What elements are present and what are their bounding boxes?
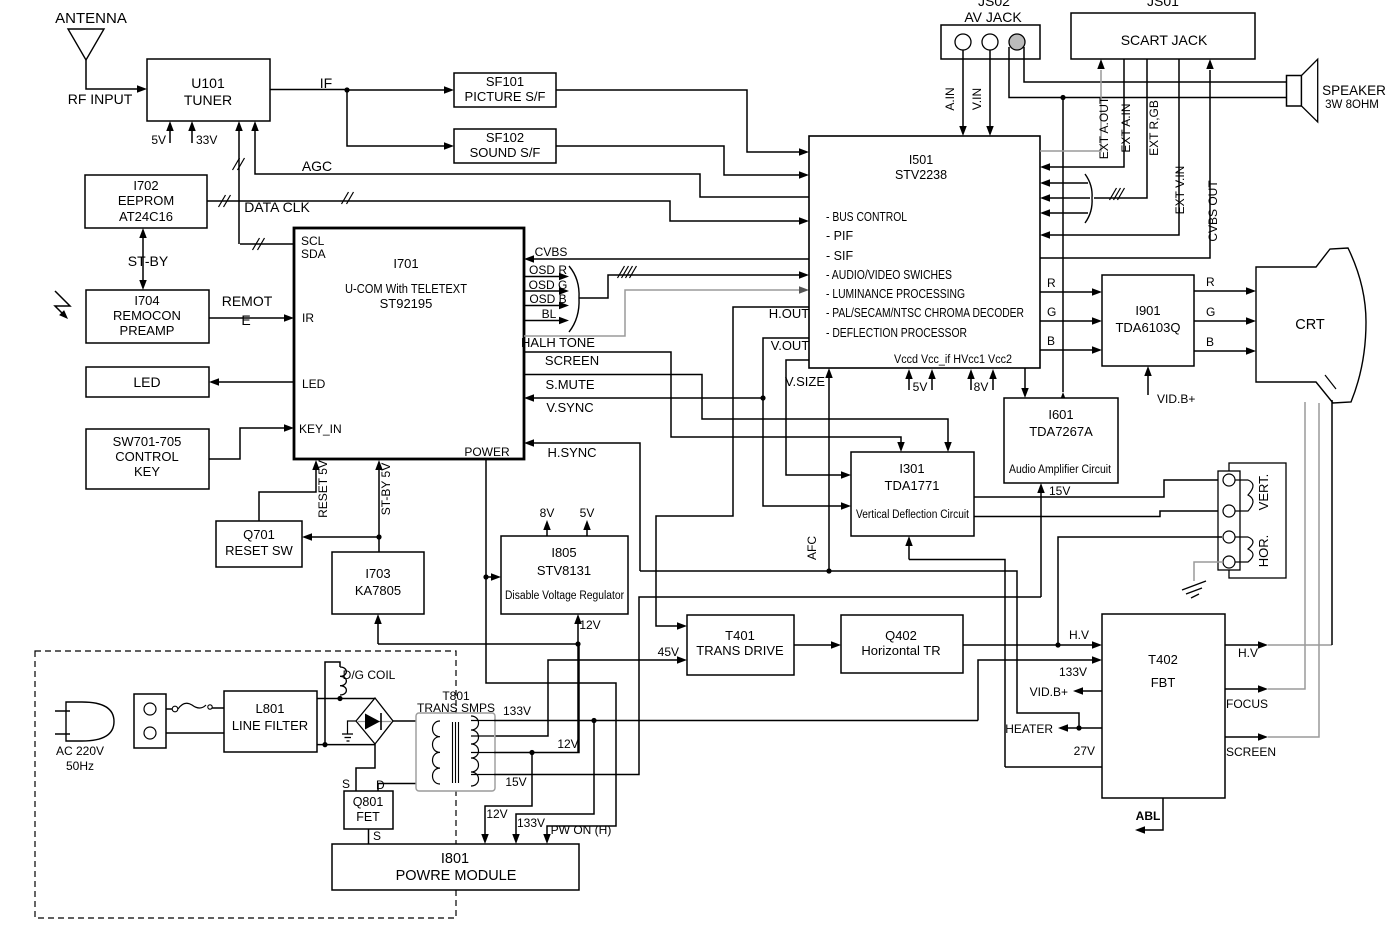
svg-text:EXT A.OUT: EXT A.OUT <box>1097 96 1111 159</box>
svg-text:OSD B: OSD B <box>529 292 566 306</box>
wire V.SIZE to I301 <box>786 360 851 479</box>
regulator I805 <box>501 536 628 614</box>
svg-text:I301: I301 <box>899 461 924 476</box>
wire 12V rail to I703 <box>374 614 578 644</box>
wire 12V riser from T801 <box>577 644 579 753</box>
svg-text:Q701: Q701 <box>243 527 275 542</box>
power module I801 <box>332 844 579 890</box>
svg-text:- PAL/SECAM/NTSC CHROMA DECODE: - PAL/SECAM/NTSC CHROMA DECODER <box>826 306 1024 320</box>
svg-text:POWER: POWER <box>464 445 510 459</box>
svg-text:T402: T402 <box>1148 652 1178 667</box>
svg-text:VID.B+: VID.B+ <box>1157 392 1195 406</box>
svg-text:STV8131: STV8131 <box>537 563 591 578</box>
label SPEAKER <box>1322 83 1386 98</box>
wire ABL <box>1135 798 1163 834</box>
wire POWER into I805 <box>486 573 501 581</box>
label D/G COIL <box>343 668 396 682</box>
wire AFC line <box>640 571 1079 728</box>
svg-text:EXT A.IN: EXT A.IN <box>1119 103 1133 152</box>
svg-text:FOCUS: FOCUS <box>1226 697 1268 711</box>
svg-text:TDA6103Q: TDA6103Q <box>1115 320 1180 335</box>
eeprom I702 <box>85 175 207 228</box>
svg-text:AGC: AGC <box>302 158 332 174</box>
wire CVBS I501 to I701 <box>524 245 809 263</box>
line filter L801 <box>224 691 317 752</box>
wire OSD G <box>524 278 569 295</box>
T801 core <box>453 722 459 783</box>
crt <box>1256 248 1366 403</box>
fet Q801 <box>344 791 393 829</box>
svg-text:T401: T401 <box>725 628 755 643</box>
svg-text:Vertical Deflection Circuit: Vertical Deflection Circuit <box>856 509 970 521</box>
svg-text:SDA: SDA <box>301 247 326 261</box>
svg-text:H.SYNC: H.SYNC <box>547 445 596 460</box>
svg-text:POWRE MODULE: POWRE MODULE <box>396 868 517 884</box>
wire audio from I601 <box>1059 98 1067 403</box>
svg-text:Vccd Vcc_if HVcc1 Vcc2: Vccd Vcc_if HVcc1 Vcc2 <box>894 354 1012 366</box>
svg-text:- DEFLECTION PROCESSOR: - DEFLECTION PROCESSOR <box>826 326 967 340</box>
svg-text:U-COM With TELETEXT: U-COM With TELETEXT <box>345 281 467 296</box>
svg-text:AC 220V: AC 220V <box>56 744 104 758</box>
wire S.MUTE to I301 <box>524 375 952 453</box>
junction 12V rail <box>575 641 580 646</box>
svg-text:PW ON (H): PW ON (H) <box>551 823 612 837</box>
svg-text:CONTROL: CONTROL <box>115 449 179 464</box>
power supply dashed boundary <box>35 651 456 918</box>
svg-text:- BUS CONTROL: - BUS CONTROL <box>826 210 907 224</box>
wire RESET 5V <box>259 460 330 521</box>
label JS02 <box>978 0 1010 9</box>
svg-text:V.IN: V.IN <box>970 88 984 110</box>
svg-text:R: R <box>1047 276 1056 290</box>
degauss coil D/G <box>325 662 346 745</box>
wire KEY_IN <box>209 424 294 459</box>
svg-text:G: G <box>1206 305 1215 319</box>
label V.SYNC <box>546 400 593 415</box>
wire Q402 to FBT <box>963 628 1102 649</box>
label S.MUTE <box>545 377 594 392</box>
svg-text:SCREEN: SCREEN <box>1226 745 1276 759</box>
wire 12V tap <box>494 644 579 753</box>
svg-text:CRT: CRT <box>1295 317 1325 333</box>
svg-text:JS01: JS01 <box>1147 0 1179 9</box>
svg-text:G: G <box>1047 305 1056 319</box>
33V supply into tuner <box>188 121 217 147</box>
label DATA CLK <box>244 199 310 215</box>
wire EXT R.GB <box>1094 59 1161 200</box>
svg-text:D/G COIL: D/G COIL <box>343 668 396 682</box>
label H.SYNC <box>547 445 596 460</box>
av jack pin 3 <box>1009 34 1025 50</box>
svg-text:133V: 133V <box>1059 665 1087 679</box>
svg-text:RF INPUT: RF INPUT <box>68 91 133 107</box>
svg-text:ABL: ABL <box>1136 809 1161 823</box>
wire B to CRT <box>1194 335 1256 355</box>
svg-text:27V: 27V <box>1074 744 1095 758</box>
yoke pin 4 <box>1223 556 1235 568</box>
wire SCREEN to CRT <box>1225 403 1319 759</box>
trans drive T401 <box>687 615 794 675</box>
wire AGC I501 to tuner <box>251 121 809 197</box>
svg-text:BL: BL <box>542 307 557 321</box>
svg-text:TDA1771: TDA1771 <box>885 478 940 493</box>
svg-text:H.V: H.V <box>1069 628 1089 642</box>
ac plug <box>55 702 114 741</box>
wire L801 top out <box>317 698 375 700</box>
svg-text:B: B <box>1206 335 1214 349</box>
wire connector to L801 bottom <box>166 732 224 734</box>
label H.OUT <box>769 306 810 321</box>
svg-text:SW701-705: SW701-705 <box>113 434 182 449</box>
label 50Hz <box>66 759 94 773</box>
reset switch Q701 <box>216 521 302 567</box>
svg-text:- LUMINANCE PROCESSING: - LUMINANCE PROCESSING <box>826 287 965 301</box>
wire 12V into I805 <box>574 614 600 644</box>
svg-text:ST-BY: ST-BY <box>128 253 169 269</box>
svg-text:AFC: AFC <box>805 536 819 560</box>
wire yoke ground gray <box>1194 562 1223 581</box>
wire VID.B+ out <box>1030 685 1102 699</box>
svg-text:TRANS DRIVE: TRANS DRIVE <box>696 643 784 658</box>
junction heater afc <box>1076 725 1081 730</box>
label PW ON (H) <box>551 823 612 837</box>
wire 15V into I601 <box>1037 483 1070 597</box>
wire BL <box>524 307 569 324</box>
junction 133V <box>591 718 596 723</box>
wire V.OUT to I301 <box>763 338 851 510</box>
fuse <box>166 703 224 712</box>
junction 12V to I801 <box>529 750 534 755</box>
svg-text:Disable Voltage Regulator: Disable Voltage Regulator <box>505 590 624 602</box>
wire EXT B to I501 <box>1040 209 1088 217</box>
8V supply into I501 <box>967 369 997 394</box>
svg-text:PREAMP: PREAMP <box>120 323 175 338</box>
scart jack JS01 <box>1071 13 1255 59</box>
svg-text:SPEAKER: SPEAKER <box>1322 83 1386 98</box>
yoke pin 3 <box>1223 531 1235 543</box>
svg-text:EEPROM: EEPROM <box>118 193 174 208</box>
av jack pin 2 <box>982 34 998 50</box>
label V.OUT <box>771 338 810 353</box>
junction speaker audio <box>1060 95 1065 100</box>
tuner U101 <box>147 59 270 121</box>
wire FOCUS to CRT <box>1225 402 1305 711</box>
svg-text:REMOCON: REMOCON <box>113 308 181 323</box>
wire bridge to FET S <box>342 744 375 791</box>
5V supply into tuner <box>151 121 173 147</box>
svg-text:TRANS SMPS: TRANS SMPS <box>417 701 495 715</box>
smps transformer T801 <box>416 689 495 791</box>
IR beam symbol <box>55 291 70 319</box>
pin SDA <box>301 247 326 261</box>
yoke pin 1 <box>1223 474 1235 486</box>
wire ST-BY I702-I704 <box>128 228 169 290</box>
wire SCREEN to I301 <box>524 352 905 452</box>
svg-text:KEY: KEY <box>134 464 160 479</box>
svg-text:A.IN: A.IN <box>943 87 957 110</box>
svg-text:Horizontal TR: Horizontal TR <box>861 643 940 658</box>
wire OSD bus to I501 <box>579 266 809 298</box>
filter SF101 <box>454 73 556 107</box>
pin SCL <box>301 234 325 248</box>
svg-text:S: S <box>373 829 381 843</box>
svg-text:- SIF: - SIF <box>826 249 853 263</box>
wire EXT A.IN <box>1040 59 1133 171</box>
T801 tap stubs <box>471 721 494 775</box>
wire LED from I701 <box>209 378 294 386</box>
8V output stub <box>540 506 555 536</box>
label ANTENNA <box>55 10 127 27</box>
svg-text:- PIF: - PIF <box>826 229 853 243</box>
svg-text:SF101: SF101 <box>486 74 524 89</box>
bridge rectifier <box>356 698 393 744</box>
svg-text:SF102: SF102 <box>486 130 524 145</box>
svg-text:OSD R: OSD R <box>529 263 567 277</box>
hor coil <box>1235 537 1253 562</box>
svg-text:12V: 12V <box>579 618 600 632</box>
svg-text:JS02: JS02 <box>978 0 1010 9</box>
svg-text:L801: L801 <box>256 701 285 716</box>
svg-text:S: S <box>342 777 350 791</box>
svg-text:AT24C16: AT24C16 <box>119 209 173 224</box>
svg-text:SCREEN: SCREEN <box>545 353 599 368</box>
wire VID.B+ into I901 <box>1144 366 1195 406</box>
yoke connector frame <box>1229 463 1286 578</box>
svg-text:TUNER: TUNER <box>184 92 232 108</box>
svg-text:IF: IF <box>320 75 332 91</box>
svg-text:E: E <box>241 312 250 328</box>
svg-text:ANTENNA: ANTENNA <box>55 10 127 27</box>
svg-text:I501: I501 <box>909 153 933 167</box>
svg-text:V.OUT: V.OUT <box>771 338 810 353</box>
crt anode tick <box>1325 375 1336 389</box>
wire B to I901 <box>1040 334 1102 354</box>
svg-text:OSD G: OSD G <box>529 278 568 292</box>
svg-text:I702: I702 <box>133 178 158 193</box>
wire POWER from I701 <box>486 459 616 844</box>
svg-text:VID.B+: VID.B+ <box>1030 685 1068 699</box>
svg-text:IR: IR <box>302 311 314 325</box>
svg-text:I703: I703 <box>365 566 390 581</box>
svg-text:AV JACK: AV JACK <box>964 9 1022 25</box>
svg-text:H.OUT: H.OUT <box>769 306 810 321</box>
wire REMOTE I704 to I701 <box>209 293 294 328</box>
wire hor drive to yoke <box>1058 537 1222 645</box>
svg-text:3W 8OHM: 3W 8OHM <box>1325 99 1379 111</box>
av jack JS02 <box>941 9 1040 59</box>
label 3W 8OHM <box>1325 99 1379 111</box>
svg-text:8V: 8V <box>974 380 989 394</box>
wire V.IN to I501 <box>970 50 994 136</box>
wire IF branch to SF102 <box>347 90 454 150</box>
svg-text:HEATER: HEATER <box>1005 722 1053 736</box>
svg-text:45V: 45V <box>658 645 679 659</box>
svg-text:5V: 5V <box>913 380 928 394</box>
OSD bus brace <box>569 266 579 332</box>
wire speaker top <box>1024 47 1287 82</box>
svg-text:HALH TONE: HALH TONE <box>521 335 595 350</box>
pin POWER <box>464 445 510 459</box>
flyback T402 <box>1102 614 1225 798</box>
svg-text:EXT R,GB: EXT R,GB <box>1147 100 1161 156</box>
svg-text:KEY_IN: KEY_IN <box>299 422 342 436</box>
wire HALH TONE gray <box>524 286 809 336</box>
wire 15V tap <box>494 597 1041 789</box>
EXT RGB brace <box>1085 174 1092 223</box>
wire 12V to I801 <box>481 753 532 845</box>
wire FET S to I801 <box>369 829 382 844</box>
svg-text:DATA CLK: DATA CLK <box>244 199 310 215</box>
svg-text:8V: 8V <box>540 506 555 520</box>
vertical deflection I301 <box>851 452 974 536</box>
svg-text:RESET SW: RESET SW <box>225 543 293 558</box>
svg-text:I701: I701 <box>393 256 418 271</box>
junction V.OUT V.SYNC <box>760 395 765 400</box>
svg-text:5V: 5V <box>151 133 166 147</box>
wire SF101 to I501 <box>556 90 809 156</box>
filter SF102 <box>454 129 556 163</box>
svg-text:KA7805: KA7805 <box>355 583 401 598</box>
horizontal TR Q402 <box>841 615 963 673</box>
svg-text:I901: I901 <box>1135 303 1160 318</box>
svg-text:LED: LED <box>302 377 326 391</box>
svg-text:ST-BY 5V: ST-BY 5V <box>379 463 393 515</box>
pin IR <box>302 311 314 325</box>
remocon preamp I704 <box>86 290 209 343</box>
wire R to CRT <box>1194 275 1256 295</box>
wire 27V into FBT <box>1005 744 1102 767</box>
regulator I703 <box>332 552 424 614</box>
control keys SW701-705 <box>86 429 209 489</box>
svg-text:FBT: FBT <box>1151 675 1176 690</box>
wire EXT V.IN <box>1040 59 1187 239</box>
antenna symbol <box>68 29 147 93</box>
wire ST-BY 5V <box>375 460 393 552</box>
wire FET D to T801 <box>376 778 440 792</box>
wire OSD B <box>524 292 569 309</box>
wire I501 to I601 <box>1021 368 1029 398</box>
svg-text:REMOT: REMOT <box>222 293 273 309</box>
svg-text:CVBS: CVBS <box>535 245 568 259</box>
svg-text:Audio Amplifier Circuit: Audio Amplifier Circuit <box>1009 464 1112 476</box>
wire L801 bottom out <box>317 744 375 746</box>
svg-text:133V: 133V <box>503 704 531 718</box>
svg-text:S.MUTE: S.MUTE <box>545 377 594 392</box>
speaker <box>1287 59 1318 122</box>
svg-text:- AUDIO/VIDEO SWICHES: - AUDIO/VIDEO SWICHES <box>826 268 952 282</box>
wire 133V to I801 <box>512 721 594 845</box>
svg-text:I601: I601 <box>1048 407 1073 422</box>
junction hor drive <box>1055 642 1060 647</box>
wire H.SYNC from AFC line <box>524 439 640 571</box>
ac connector <box>134 694 166 748</box>
wire ST-BY 5V to Q701 <box>302 533 379 541</box>
wire A.IN to I501 <box>943 50 967 136</box>
svg-text:ST92195: ST92195 <box>380 296 433 311</box>
wire 133V rail <box>494 704 978 721</box>
wire AFC into I501 <box>805 368 833 571</box>
svg-text:12V: 12V <box>486 807 507 821</box>
T801 primary winding <box>433 721 441 784</box>
svg-text:15V: 15V <box>1049 484 1070 498</box>
svg-text:PICTURE S/F: PICTURE S/F <box>465 89 546 104</box>
svg-text:V.SIZE: V.SIZE <box>785 374 825 389</box>
jungle IC I501 <box>809 136 1040 368</box>
wire H.V to CRT <box>1225 400 1332 660</box>
svg-text:SOUND S/F: SOUND S/F <box>470 145 541 160</box>
svg-text:I801: I801 <box>441 851 469 867</box>
svg-text:U101: U101 <box>191 75 225 91</box>
wire speaker bottom <box>1009 47 1287 98</box>
svg-text:H.V: H.V <box>1238 646 1258 660</box>
svg-text:12V: 12V <box>557 737 578 751</box>
label SCREEN <box>545 353 599 368</box>
wire EXT A.OUT gray <box>1040 59 1111 159</box>
led box <box>86 367 209 397</box>
wire G to I901 <box>1040 305 1102 325</box>
svg-text:Q801: Q801 <box>353 795 384 809</box>
svg-text:RESET 5V: RESET 5V <box>316 460 330 518</box>
label RF INPUT <box>68 91 133 107</box>
svg-text:133V: 133V <box>517 816 545 830</box>
junction AFC <box>826 568 831 573</box>
u-com I701 <box>294 228 524 459</box>
audio amp I601 <box>1004 398 1118 483</box>
5V output stub <box>580 506 595 536</box>
junction dg coil top <box>337 696 342 701</box>
pin LED <box>302 377 326 391</box>
svg-text:V.SYNC: V.SYNC <box>546 400 593 415</box>
wire EXT R to I501 <box>1040 179 1088 187</box>
wire CVBS OUT <box>1040 59 1220 258</box>
pin KEY_IN <box>299 422 342 436</box>
svg-text:B: B <box>1047 334 1055 348</box>
svg-text:TDA7267A: TDA7267A <box>1029 424 1093 439</box>
label AC 220V <box>56 744 104 758</box>
svg-text:50Hz: 50Hz <box>66 759 94 773</box>
T801 secondary winding <box>471 716 479 786</box>
wire G to CRT <box>1194 305 1256 325</box>
svg-text:15V: 15V <box>505 775 526 789</box>
wire V.SYNC from V.OUT <box>524 394 763 402</box>
wire bridge to T801 <box>393 720 440 722</box>
svg-text:I704: I704 <box>134 293 159 308</box>
bridge ground <box>342 721 356 741</box>
svg-text:CVBS OUT: CVBS OUT <box>1206 180 1220 242</box>
wire DATA CLK bus <box>207 192 809 225</box>
wire SCL SDA bus <box>240 238 294 250</box>
wire SF102 to I501 <box>556 146 809 179</box>
svg-text:FET: FET <box>356 810 380 824</box>
svg-text:STV2238: STV2238 <box>895 168 947 182</box>
av jack pin 1 <box>955 34 971 50</box>
wire 133V to FBT <box>978 656 1102 720</box>
svg-text:EXT V.IN: EXT V.IN <box>1173 166 1187 215</box>
wire 45V to T401 <box>494 645 687 736</box>
svg-text:SCL: SCL <box>301 234 325 248</box>
svg-text:5V: 5V <box>580 506 595 520</box>
label VERT. <box>1256 474 1271 511</box>
label V.SIZE <box>785 374 825 389</box>
wire OSD R <box>524 263 569 280</box>
wire H.OUT to T401 <box>656 307 809 630</box>
label HALH TONE <box>521 335 595 350</box>
5V supply into I501 <box>905 369 936 394</box>
wire HEATER out <box>1005 722 1102 736</box>
yoke connector pin strip <box>1218 471 1240 570</box>
svg-text:I805: I805 <box>551 545 576 560</box>
junction dg coil bottom <box>322 742 327 747</box>
